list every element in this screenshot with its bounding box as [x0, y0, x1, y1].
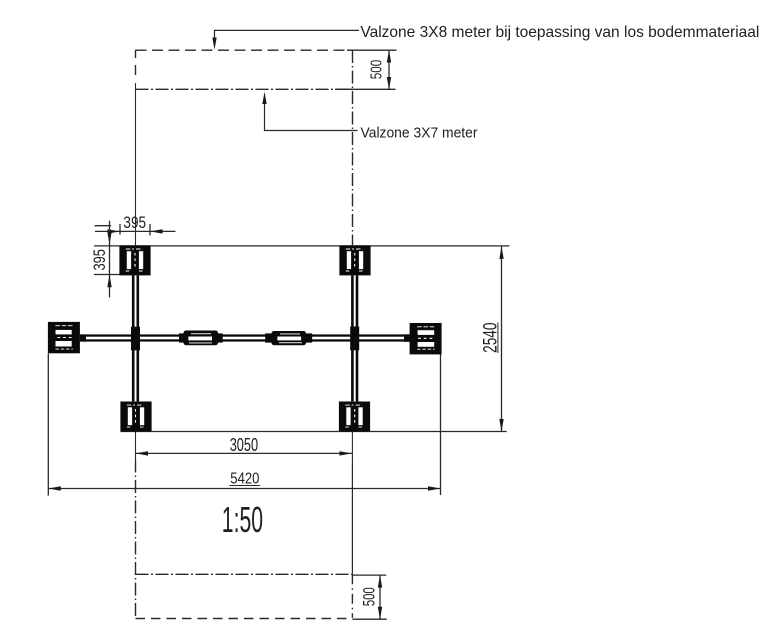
dimension 5420: dimension line with arrows: [48, 488, 440, 490]
leader arrowhead pointing up to dash-dot line: [262, 92, 266, 104]
valzone 3x8 top boundary (dashed line): [136, 49, 353, 51]
dimension 5420: extension lines: [48, 354, 440, 496]
dimension 500 bottom: extension lines: [352, 575, 386, 619]
dimension 395 vertical: dimension line: [109, 221, 111, 298]
footing bottom-left (square ground anchor): [120, 402, 151, 432]
dimension 395 vertical: end tick: [95, 225, 112, 227]
footing top-right (square ground anchor): [339, 245, 370, 275]
dimension 500 bottom: dimension line with arrows: [379, 575, 381, 619]
valzone 3x7 bottom boundary (dash-dot line): [136, 573, 353, 575]
beam end joint at right end post: [404, 334, 410, 341]
dimension 395 horizontal: dimension line: [95, 230, 176, 232]
dimension 500 top: extension lines: [335, 50, 397, 89]
swing hanger unit 1 right clamp: [218, 333, 223, 342]
valzone 3x7 top boundary (dash-dot line): [136, 88, 353, 90]
svg-text:395: 395: [90, 249, 109, 270]
svg-text:500: 500: [369, 60, 386, 80]
leader line for Valzone 3X8 label: [215, 30, 360, 41]
dimension 2540: dimension line with arrows: [501, 246, 503, 431]
dimension 3050: dimension line with arrows: [136, 452, 353, 454]
dimension 395 horizontal: extension lines: [120, 224, 150, 236]
footing top-left (square ground anchor): [119, 245, 150, 275]
long extension line across footing bottoms (2540 bottom extension): [121, 431, 507, 433]
svg-text:Valzone 3X7 meter: Valzone 3X7 meter: [361, 124, 478, 141]
right leg (double line) upper segment: [351, 276, 354, 335]
svg-text:3050: 3050: [230, 435, 258, 455]
swing hanger unit 2 right clamp: [306, 333, 312, 342]
footing left end post (square ground anchor, rotated layout): [48, 322, 80, 353]
left leg (double line) upper segment: [132, 276, 135, 335]
swing hanger unit 1 body: [184, 331, 219, 346]
valzone 3x8 bottom boundary (dashed line): [136, 618, 353, 620]
right leg-beam joint blob: [350, 327, 359, 351]
svg-text:395: 395: [123, 213, 146, 232]
beam (double line bottom bar): [80, 339, 410, 341]
swing hanger unit 2 left clamp: [265, 333, 271, 342]
svg-text:5420: 5420: [230, 470, 259, 487]
left leg-beam joint blob: [131, 327, 140, 351]
svg-text:500: 500: [359, 587, 378, 606]
swing hanger unit 1 left clamp: [179, 333, 184, 342]
leader line for Valzone 3X7 label: [265, 102, 358, 131]
dimension 395 vertical: footing bottom extension line: [94, 274, 120, 276]
svg-text:Valzone 3X8 meter bij toepassi: Valzone 3X8 meter bij toepassing van los…: [360, 24, 759, 41]
left leg (double line) lower segment: [132, 342, 135, 402]
leader arrowhead pointing down to dashed line: [212, 38, 216, 50]
footing right end post (square ground anchor, rotated layout): [410, 323, 442, 354]
beam (double line top bar): [80, 334, 410, 336]
svg-text:1:50: 1:50: [222, 499, 263, 540]
beam end joint at left end post: [80, 334, 86, 341]
dimension 500 top: dimension line with arrows: [388, 50, 390, 89]
valzone 3x8 right boundary (vertical dash-dot line): [351, 50, 353, 618]
right leg (double line) lower segment: [351, 342, 354, 402]
footing bottom-right (square ground anchor): [339, 402, 370, 432]
swing hanger unit 2 body: [272, 331, 307, 345]
long extension line across footing tops (2540 top extension): [94, 245, 510, 247]
valzone 3x8 left boundary (vertical dash-dot line): [135, 50, 137, 618]
